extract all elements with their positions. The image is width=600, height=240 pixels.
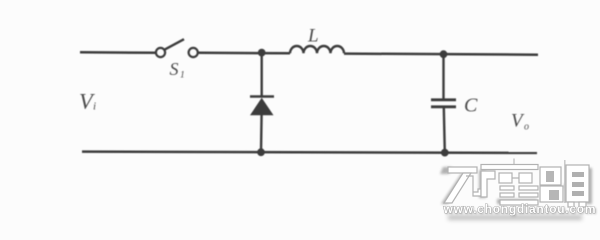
node E (capacitor bottom junction) [441, 149, 449, 157]
bottom wire [82, 152, 537, 153]
svg-text:S: S [170, 59, 179, 79]
capacitor C [431, 54, 456, 152]
glyph 1 (chong) [444, 167, 481, 203]
watermark logo shadows [440, 167, 592, 204]
glyph 3 (tou) [540, 160, 589, 207]
watermark url shadow [448, 215, 582, 220]
label Vo [511, 111, 529, 133]
wire switch to node A [198, 52, 290, 55]
inductor L [290, 46, 344, 53]
node A (diode top junction) [258, 49, 266, 57]
glyph 2 (dian) [481, 159, 538, 206]
label S1 [170, 59, 185, 81]
svg-text:i: i [93, 101, 96, 113]
node C (diode bottom junction) [257, 148, 265, 156]
diode D1 [250, 53, 274, 153]
wire inductor to top-right end [344, 54, 538, 55]
node B (capacitor top junction) [440, 50, 448, 58]
svg-text:L: L [307, 26, 319, 47]
wire top-left segment [80, 51, 156, 54]
svg-text:C: C [464, 95, 478, 117]
watermark logo chongdiantou [444, 159, 589, 208]
label Vi [79, 88, 96, 113]
svg-text:1: 1 [180, 71, 185, 81]
svg-text:www.chongdiantou.com: www.chongdiantou.com [443, 202, 596, 216]
switch S1 [156, 39, 198, 57]
svg-text:o: o [524, 122, 529, 133]
